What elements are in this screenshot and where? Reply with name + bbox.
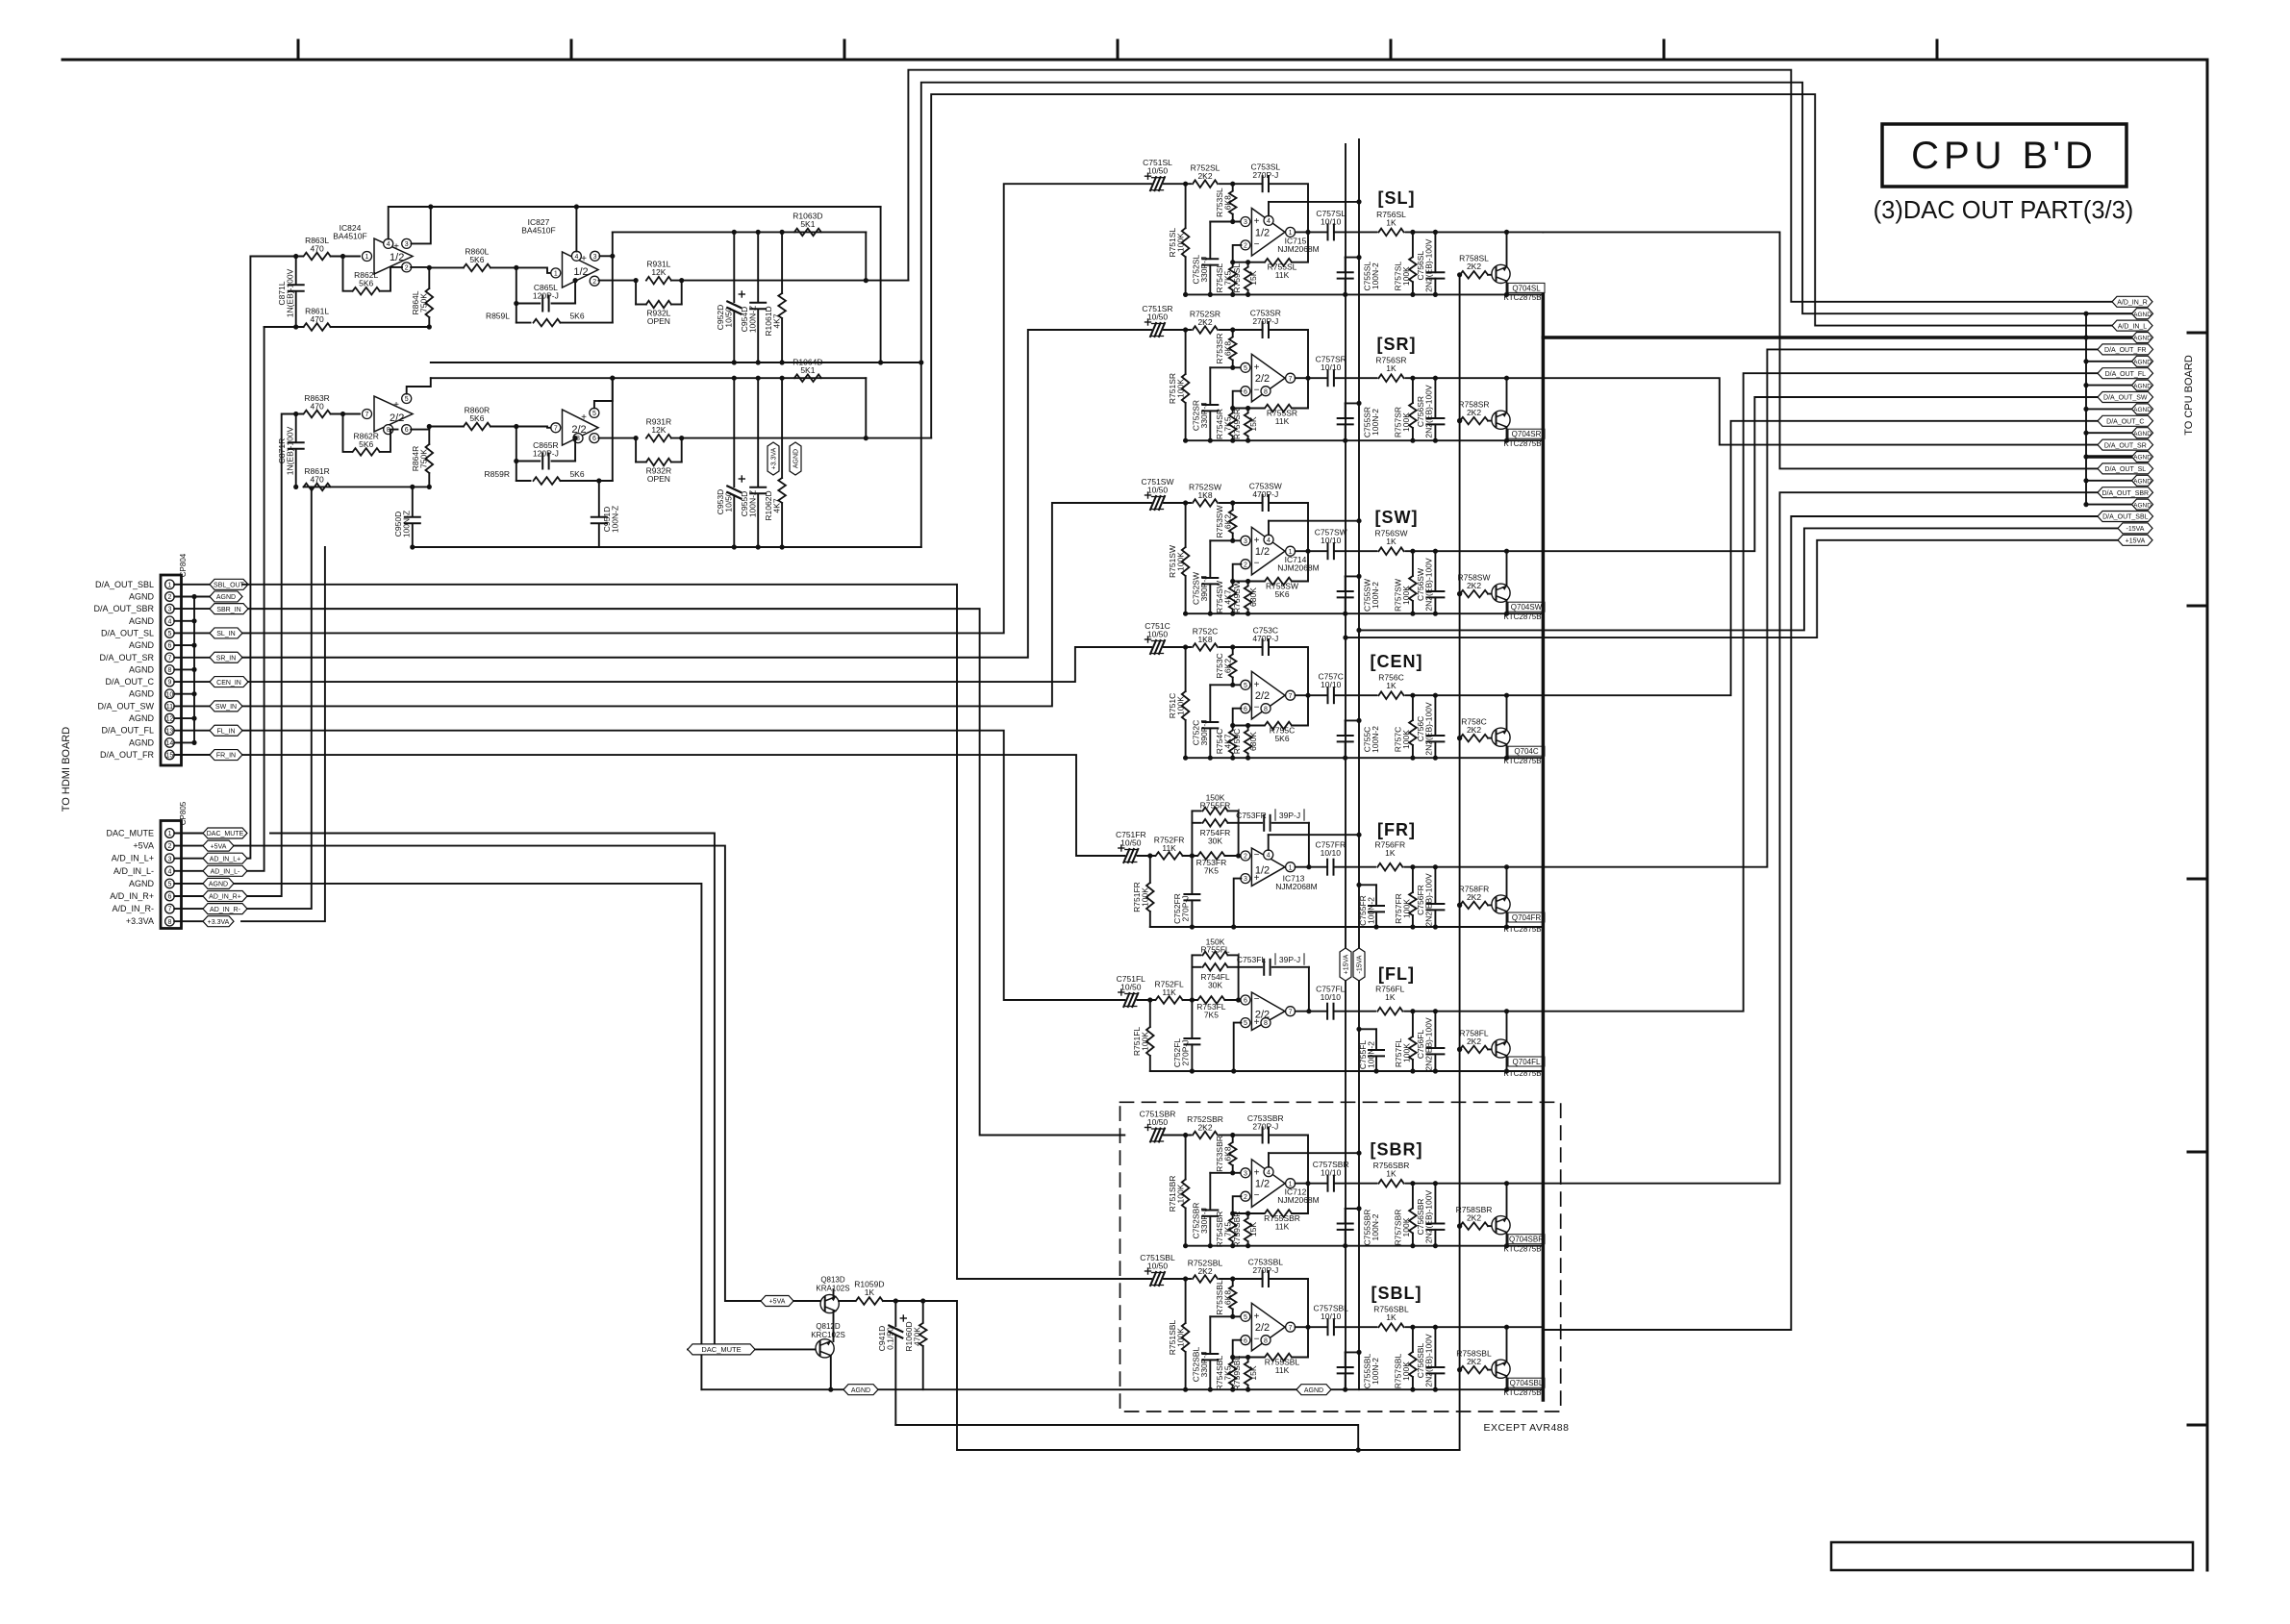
net flag AGND on rail 1 bbox=[843, 1385, 878, 1395]
svg-text:2K2: 2K2 bbox=[1467, 1357, 1481, 1366]
resistor R757SR bbox=[1394, 378, 1417, 440]
resistor R751SR bbox=[1168, 330, 1189, 440]
capacitor C756SW bbox=[1416, 551, 1444, 613]
svg-text:5K6: 5K6 bbox=[569, 469, 584, 479]
op-amp ICSR bbox=[1241, 354, 1296, 402]
transistor Q704SR bbox=[1492, 378, 1545, 448]
svg-text:8: 8 bbox=[167, 919, 171, 926]
svg-text:7K5: 7K5 bbox=[1204, 866, 1219, 876]
capacitor C953D bbox=[716, 378, 744, 547]
wire L bias vertical bbox=[612, 232, 614, 322]
svg-text:1: 1 bbox=[554, 271, 558, 278]
svg-text:14: 14 bbox=[166, 740, 174, 747]
svg-text:15K: 15K bbox=[1248, 1222, 1258, 1237]
svg-text:3: 3 bbox=[1244, 219, 1247, 226]
resistor R753SL bbox=[1215, 184, 1237, 221]
net flag +3.3VA vertical bbox=[768, 442, 779, 475]
svg-text:NJM2068M: NJM2068M bbox=[1277, 244, 1319, 254]
svg-text:[SL]: [SL] bbox=[1378, 188, 1416, 208]
label TO HDMI BOARD bbox=[61, 727, 72, 812]
wire bbox=[331, 254, 360, 259]
wire bbox=[1292, 378, 1308, 408]
svg-text:330P-J: 330P-J bbox=[1199, 1208, 1209, 1234]
svg-text:AGND: AGND bbox=[2133, 455, 2152, 462]
capacitor C756C bbox=[1416, 695, 1444, 758]
svg-text:5K1: 5K1 bbox=[800, 365, 815, 375]
svg-text:10/10: 10/10 bbox=[1321, 362, 1342, 372]
resistor R753SW bbox=[1215, 503, 1237, 540]
node [CEN] bbox=[1371, 652, 1423, 671]
svg-text:7K5: 7K5 bbox=[1223, 1365, 1233, 1380]
svg-text:1/2: 1/2 bbox=[1255, 1179, 1270, 1190]
resistor R754FR bbox=[1192, 819, 1238, 845]
capacitor C756FR bbox=[1416, 867, 1444, 927]
resistor R759SL bbox=[1232, 260, 1258, 294]
resistor R752C bbox=[1193, 627, 1218, 651]
svg-text:-15VA: -15VA bbox=[1357, 955, 1364, 973]
svg-text:NJM2068M: NJM2068M bbox=[1277, 563, 1319, 573]
svg-text:+: + bbox=[1254, 680, 1260, 690]
wire bbox=[1238, 811, 1240, 856]
subtitle (3)DAC OUT PART(3/3) bbox=[1874, 197, 2134, 224]
svg-text:390P-J: 390P-J bbox=[1199, 720, 1209, 746]
node [FR] bbox=[1377, 820, 1416, 839]
svg-text:[FR]: [FR] bbox=[1377, 820, 1416, 839]
resistor R756FR bbox=[1374, 840, 1405, 871]
svg-text:Q704SW: Q704SW bbox=[1511, 603, 1543, 612]
op-amp IC715 bbox=[1241, 199, 1362, 256]
svg-text:100K: 100K bbox=[1141, 887, 1150, 907]
svg-text:FL_IN: FL_IN bbox=[216, 728, 235, 735]
svg-text:4: 4 bbox=[574, 254, 578, 261]
svg-text:D/A_OUT_FL: D/A_OUT_FL bbox=[101, 726, 154, 736]
resistor R756SR bbox=[1375, 356, 1406, 382]
wire bbox=[1296, 1326, 1328, 1328]
svg-text:2K2: 2K2 bbox=[1467, 1213, 1481, 1223]
svg-text:CP805: CP805 bbox=[179, 801, 188, 825]
sheet right ticks bbox=[2188, 333, 2207, 1425]
capacitor C757SL bbox=[1316, 209, 1346, 240]
wire bbox=[1164, 1276, 1191, 1281]
resistor R753SBR bbox=[1215, 1136, 1237, 1173]
svg-text:D/A_OUT_C: D/A_OUT_C bbox=[105, 677, 154, 687]
capacitor C751SL bbox=[1143, 158, 1172, 190]
svg-text:6: 6 bbox=[405, 427, 409, 434]
net flag SL_IN bbox=[210, 628, 242, 638]
wire bbox=[1296, 231, 1328, 233]
node CP805 pin 4 bbox=[113, 866, 203, 876]
svg-text:4: 4 bbox=[1267, 537, 1271, 544]
svg-text:DAC_MUTE: DAC_MUTE bbox=[701, 1345, 741, 1354]
connector CP804 bbox=[161, 553, 188, 765]
net flag AGND bbox=[2132, 333, 2153, 343]
node CP804 pin 13 bbox=[101, 726, 210, 736]
svg-text:D/A_OUT_SW: D/A_OUT_SW bbox=[2103, 395, 2148, 402]
wire bbox=[1334, 550, 1377, 552]
node CP805 pin 6 bbox=[110, 891, 203, 901]
capacitor C756SR bbox=[1416, 378, 1444, 440]
resistor R931L bbox=[646, 260, 671, 285]
svg-text:5: 5 bbox=[1244, 1020, 1247, 1027]
svg-text:5: 5 bbox=[1244, 365, 1247, 372]
wire bbox=[1164, 327, 1191, 332]
resistor R859R bbox=[485, 469, 613, 485]
svg-text:2: 2 bbox=[1244, 243, 1247, 250]
svg-text:−: − bbox=[1254, 703, 1260, 713]
wire IC827 pin4 up bbox=[575, 207, 577, 252]
svg-text:AGND: AGND bbox=[129, 689, 155, 699]
svg-text:10/50: 10/50 bbox=[1147, 1117, 1169, 1127]
svg-text:2N2(EB)-100V: 2N2(EB)-100V bbox=[1424, 238, 1434, 292]
svg-text:SBL_OUT: SBL_OUT bbox=[214, 583, 245, 589]
svg-text:10: 10 bbox=[166, 691, 174, 698]
svg-text:5K6: 5K6 bbox=[569, 312, 584, 321]
svg-text:AGND: AGND bbox=[851, 1387, 870, 1394]
svg-text:10/10: 10/10 bbox=[1321, 1168, 1342, 1178]
resistor R1060D bbox=[904, 1301, 927, 1389]
wire SBL out route bbox=[1543, 516, 2099, 1330]
svg-text:2N2(EB)-100V: 2N2(EB)-100V bbox=[1424, 873, 1434, 927]
capacitor C756SBR bbox=[1416, 1184, 1444, 1246]
svg-text:BA4510F: BA4510F bbox=[521, 226, 555, 236]
wire AGND bold to flag row4 bbox=[1543, 336, 2132, 339]
svg-text:7K5: 7K5 bbox=[1204, 1011, 1219, 1020]
capacitor C757SW bbox=[1315, 528, 1347, 560]
svg-text:10/50: 10/50 bbox=[1120, 838, 1142, 848]
svg-text:R759SL: R759SL bbox=[1232, 263, 1242, 293]
svg-text:−: − bbox=[1254, 1190, 1260, 1201]
svg-text:2: 2 bbox=[592, 279, 596, 286]
svg-text:470K: 470K bbox=[913, 1327, 922, 1346]
capacitor C757C bbox=[1318, 672, 1343, 704]
svg-text:D/A_OUT_FL: D/A_OUT_FL bbox=[2105, 371, 2147, 378]
capacitor C751SW bbox=[1141, 477, 1173, 510]
svg-text:4: 4 bbox=[387, 241, 390, 248]
svg-text:A/D_IN_R: A/D_IN_R bbox=[2117, 300, 2148, 307]
svg-text:2N2(EB)-100V: 2N2(EB)-100V bbox=[1424, 1334, 1434, 1387]
svg-text:7: 7 bbox=[1289, 693, 1293, 700]
wire +5VA route bbox=[234, 846, 761, 1301]
resistor R756C bbox=[1378, 673, 1403, 699]
svg-text:470: 470 bbox=[311, 474, 324, 484]
wire bbox=[1296, 377, 1328, 379]
svg-text:750K: 750K bbox=[419, 293, 429, 312]
net flag A/D_IN_R bbox=[2112, 296, 2152, 307]
svg-text:2N2(EB)-100V: 2N2(EB)-100V bbox=[1424, 385, 1434, 438]
svg-text:2: 2 bbox=[405, 265, 409, 272]
svg-text:270P-J: 270P-J bbox=[1252, 170, 1278, 180]
resistor R758SBR bbox=[1456, 1205, 1493, 1230]
resistor R758SL bbox=[1457, 254, 1489, 279]
wire AGND rail SL bbox=[1183, 292, 1543, 297]
svg-text:100N-2: 100N-2 bbox=[1367, 1041, 1376, 1068]
resistor R754FL bbox=[1192, 963, 1238, 989]
svg-text:120P-J: 120P-J bbox=[533, 449, 559, 459]
svg-text:11K: 11K bbox=[1162, 987, 1176, 997]
wire L rail bbox=[431, 360, 924, 364]
svg-text:[SBR]: [SBR] bbox=[1371, 1140, 1423, 1160]
resistor R753SBL bbox=[1215, 1279, 1237, 1316]
wire bbox=[1406, 1181, 1544, 1186]
svg-text:Q813D: Q813D bbox=[820, 1276, 845, 1285]
net flag +5VA bbox=[761, 1296, 793, 1307]
connector CP805 bbox=[161, 801, 188, 928]
transistor Q704C bbox=[1492, 695, 1545, 765]
svg-text:100K: 100K bbox=[1401, 1362, 1411, 1381]
svg-text:120P-J: 120P-J bbox=[533, 291, 559, 301]
capacitor C753SBR bbox=[1247, 1113, 1284, 1143]
svg-text:R755FR: R755FR bbox=[1200, 800, 1231, 810]
net flag CEN_IN bbox=[210, 677, 248, 687]
net flag -15VA bbox=[1353, 948, 1365, 981]
svg-text:2K2: 2K2 bbox=[1467, 892, 1481, 902]
svg-text:2/2: 2/2 bbox=[1255, 1322, 1270, 1334]
svg-text:39P-J: 39P-J bbox=[1279, 811, 1300, 820]
svg-text:4K7: 4K7 bbox=[1223, 734, 1233, 748]
svg-text:D/A_OUT_SL: D/A_OUT_SL bbox=[101, 628, 154, 637]
wire bbox=[1138, 997, 1155, 1002]
svg-text:100K: 100K bbox=[1402, 1043, 1412, 1062]
label TO CPU BOARD bbox=[2183, 355, 2195, 436]
svg-text:+5VA: +5VA bbox=[211, 843, 227, 850]
net flag D/A_OUT_SL bbox=[2098, 463, 2153, 474]
svg-text:11K: 11K bbox=[1275, 1222, 1290, 1232]
svg-text:R759SR: R759SR bbox=[1232, 409, 1242, 439]
capacitor C755SR bbox=[1338, 401, 1380, 440]
resistor R757FR bbox=[1394, 867, 1417, 927]
svg-text:1: 1 bbox=[167, 831, 171, 837]
resistor R752SBL bbox=[1188, 1259, 1223, 1283]
svg-text:5: 5 bbox=[167, 882, 171, 888]
wire bbox=[1238, 955, 1240, 1000]
wire AGND bold to flag row14 bbox=[2086, 455, 2132, 459]
net flag AD_IN_L+ bbox=[203, 853, 247, 863]
resistor R932R bbox=[636, 438, 682, 484]
wire bbox=[1292, 551, 1308, 581]
wire bbox=[1269, 503, 1311, 554]
wire bbox=[1230, 564, 1264, 584]
svg-text:12K: 12K bbox=[651, 267, 666, 277]
net flag -15VA bbox=[2118, 523, 2152, 534]
wire SR_IN route bbox=[242, 330, 1151, 658]
svg-text:1: 1 bbox=[167, 582, 171, 588]
svg-text:+: + bbox=[1254, 216, 1260, 227]
svg-text:7K5: 7K5 bbox=[1223, 1222, 1233, 1237]
svg-text:4K7: 4K7 bbox=[1223, 589, 1233, 604]
op-amp IC714 bbox=[1241, 518, 1362, 575]
svg-text:4K7: 4K7 bbox=[772, 313, 782, 328]
svg-text:100N-Z: 100N-Z bbox=[402, 511, 412, 537]
svg-text:AGND: AGND bbox=[2133, 336, 2152, 342]
wire bbox=[1230, 391, 1264, 411]
svg-text:−: − bbox=[1254, 386, 1260, 396]
svg-text:2/2: 2/2 bbox=[1255, 1010, 1270, 1021]
node CP805 pin 8 bbox=[126, 916, 203, 926]
svg-text:680K: 680K bbox=[1248, 732, 1258, 751]
resistor R753SR bbox=[1215, 330, 1237, 367]
op-amp IC827 bbox=[521, 217, 599, 287]
node CP804 pin 10 bbox=[129, 689, 194, 699]
svg-text:D/A_OUT_FR: D/A_OUT_FR bbox=[2104, 347, 2147, 354]
resistor R759SR bbox=[1232, 406, 1258, 440]
wire bbox=[1220, 644, 1263, 649]
transistor Q704FR bbox=[1492, 867, 1545, 934]
wire bbox=[1334, 694, 1377, 696]
svg-text:680K: 680K bbox=[1248, 587, 1258, 607]
svg-text:Q704FR: Q704FR bbox=[1512, 913, 1541, 922]
svg-text:330P-J: 330P-J bbox=[1199, 1352, 1209, 1378]
svg-text:270P-J: 270P-J bbox=[1252, 316, 1278, 326]
net flag AGND bbox=[2132, 499, 2153, 510]
wire bbox=[1191, 955, 1193, 1000]
svg-text:2K2: 2K2 bbox=[1467, 581, 1481, 590]
svg-text:10/10: 10/10 bbox=[1321, 1312, 1342, 1321]
svg-text:10/50: 10/50 bbox=[724, 307, 734, 328]
net flag AGND bbox=[203, 878, 234, 888]
svg-text:270P-J: 270P-J bbox=[1252, 1122, 1278, 1132]
svg-text:470: 470 bbox=[311, 244, 324, 254]
svg-text:Q704SBR: Q704SBR bbox=[1509, 1236, 1544, 1244]
svg-text:5K6: 5K6 bbox=[469, 255, 484, 264]
wire SBR_IN route bbox=[248, 609, 1124, 1135]
capacitor C755SW bbox=[1338, 574, 1380, 613]
wire bbox=[491, 424, 551, 429]
svg-text:1K: 1K bbox=[1386, 537, 1397, 546]
svg-text:NJM2068M: NJM2068M bbox=[1277, 1195, 1319, 1205]
svg-text:Q812D: Q812D bbox=[816, 1322, 841, 1331]
wire bbox=[1234, 879, 1242, 927]
capacitor C756SBL bbox=[1416, 1327, 1444, 1389]
wire AGND rail C bbox=[1183, 756, 1543, 761]
net flag +15VA bbox=[2118, 535, 2152, 545]
wire R bias row bbox=[431, 376, 867, 438]
svg-text:CPU B'D: CPU B'D bbox=[1911, 135, 2098, 177]
svg-text:0.1/50: 0.1/50 bbox=[886, 1327, 895, 1350]
svg-text:1K8: 1K8 bbox=[1197, 490, 1212, 500]
svg-text:100K: 100K bbox=[1176, 696, 1186, 715]
resistor R864L bbox=[411, 267, 433, 327]
resistor R758SBL bbox=[1456, 1349, 1492, 1374]
wire bbox=[1220, 327, 1263, 332]
wire bbox=[1224, 997, 1241, 1002]
wire bbox=[1404, 864, 1543, 869]
wire bbox=[331, 412, 360, 416]
svg-text:5: 5 bbox=[1244, 1314, 1247, 1321]
wire bbox=[1224, 853, 1241, 858]
node CP804 pin 1 bbox=[95, 580, 210, 589]
svg-text:330P-J: 330P-J bbox=[1199, 257, 1209, 283]
node CP805 pin 3 bbox=[112, 854, 203, 863]
wire bbox=[1488, 593, 1492, 595]
capacitor C753FL bbox=[1237, 954, 1309, 975]
wire SW_IN route bbox=[242, 503, 1151, 706]
svg-text:10/10: 10/10 bbox=[1321, 992, 1342, 1002]
svg-text:1N(EB)-100V: 1N(EB)-100V bbox=[286, 426, 295, 475]
wire AD_IN_L+ route bbox=[247, 257, 303, 859]
svg-text:A/D_IN_R-: A/D_IN_R- bbox=[112, 904, 154, 913]
wire -15VA to flag bbox=[1356, 528, 2118, 633]
wire SR out route bbox=[1543, 378, 2099, 444]
resistor R752SL bbox=[1191, 163, 1220, 187]
svg-text:4: 4 bbox=[167, 618, 171, 625]
svg-text:AD_IN_R+: AD_IN_R+ bbox=[209, 894, 241, 901]
svg-text:D/A_OUT_SBR: D/A_OUT_SBR bbox=[93, 604, 154, 613]
svg-text:30K: 30K bbox=[1208, 836, 1222, 845]
svg-text:5K6: 5K6 bbox=[469, 413, 484, 423]
svg-text:D/A_OUT_SR: D/A_OUT_SR bbox=[2104, 442, 2147, 449]
wire AGND rail SBL bbox=[1183, 1387, 1543, 1392]
resistor R754SR bbox=[1215, 409, 1237, 441]
resistor R755SW bbox=[1265, 578, 1298, 599]
wire bbox=[1269, 647, 1311, 698]
svg-text:2K2: 2K2 bbox=[1467, 1037, 1481, 1046]
resistor R859L bbox=[486, 312, 613, 327]
dashed option box bbox=[1120, 1102, 1561, 1412]
node [SL] bbox=[1378, 188, 1416, 208]
svg-text:4: 4 bbox=[167, 868, 171, 875]
transistor Q812D bbox=[755, 1322, 845, 1358]
resistor R758SR bbox=[1457, 400, 1490, 425]
wire bbox=[1220, 182, 1263, 187]
svg-text:7: 7 bbox=[1289, 1009, 1293, 1015]
wire 1482 line bbox=[895, 1425, 1358, 1450]
wire bbox=[1230, 1196, 1264, 1215]
capacitor C752FL bbox=[1172, 1000, 1199, 1071]
wire bbox=[1292, 695, 1308, 725]
wire AGND rail SBR bbox=[1183, 1243, 1543, 1248]
svg-text:Q704SL: Q704SL bbox=[1512, 284, 1541, 292]
resistor R1059D bbox=[839, 1280, 884, 1305]
svg-text:Q704FL: Q704FL bbox=[1513, 1058, 1541, 1066]
capacitor C751SBR bbox=[1140, 1110, 1176, 1142]
svg-text:R759SBL: R759SBL bbox=[1232, 1356, 1242, 1391]
svg-text:470P-J: 470P-J bbox=[1252, 634, 1278, 643]
wire bbox=[1406, 230, 1544, 235]
resistor R1061D bbox=[764, 232, 786, 362]
svg-text:AGND: AGND bbox=[129, 640, 155, 650]
svg-text:10/10: 10/10 bbox=[1321, 536, 1342, 545]
svg-text:3: 3 bbox=[167, 607, 171, 613]
wire bbox=[1230, 1340, 1264, 1360]
node CP804 pin 9 bbox=[105, 677, 210, 687]
resistor R759C bbox=[1232, 723, 1258, 758]
net flag AD_IN_R+ bbox=[203, 891, 247, 902]
node [SBL] bbox=[1371, 1284, 1422, 1303]
resistor R754SBR bbox=[1215, 1212, 1237, 1248]
wire bbox=[1164, 1133, 1191, 1137]
capacitor C753SBL bbox=[1248, 1258, 1284, 1287]
wire bbox=[1210, 683, 1241, 687]
net flag AGND bbox=[2132, 404, 2153, 414]
op-amp IC825 bbox=[363, 394, 414, 435]
svg-text:AGND: AGND bbox=[2133, 407, 2152, 413]
wire FR out route bbox=[1543, 349, 2099, 866]
svg-text:6: 6 bbox=[1244, 706, 1247, 712]
resistor R754SW bbox=[1215, 581, 1237, 613]
wire AGND rail FR bbox=[1150, 924, 1544, 929]
svg-text:10/50: 10/50 bbox=[1147, 166, 1169, 176]
net flag FL_IN bbox=[210, 725, 242, 736]
capacitor C757FL bbox=[1316, 985, 1346, 1019]
svg-text:8: 8 bbox=[1264, 1020, 1268, 1027]
resistor R757SW bbox=[1394, 551, 1417, 613]
svg-text:AGND: AGND bbox=[2133, 312, 2152, 318]
svg-text:D/A_OUT_SW: D/A_OUT_SW bbox=[97, 701, 154, 711]
capacitor C865R bbox=[514, 427, 578, 482]
capacitor C755FL bbox=[1356, 1027, 1384, 1071]
wire SL out route bbox=[1543, 232, 2099, 468]
svg-text:100K: 100K bbox=[1402, 899, 1412, 918]
